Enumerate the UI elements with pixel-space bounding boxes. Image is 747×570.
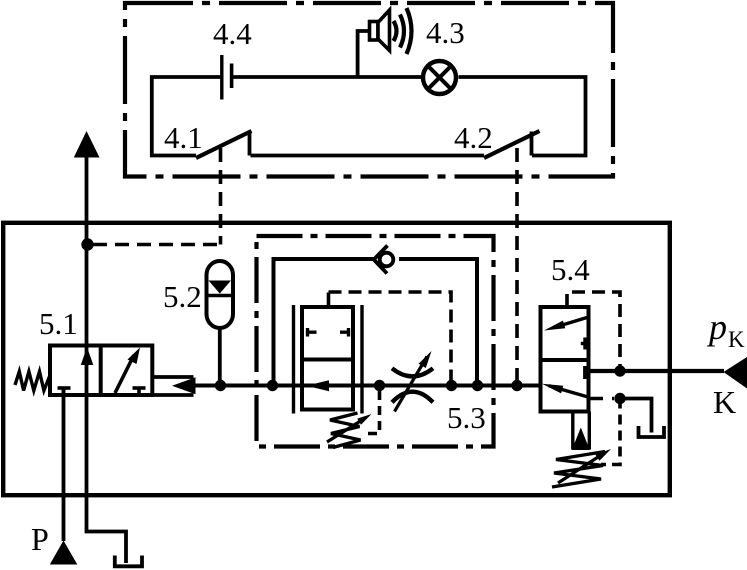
junction dot: main line / bypass left <box>267 380 278 391</box>
node A junction dot <box>81 238 93 250</box>
P supply line <box>62 389 66 542</box>
wire: exhaust branch of valve 5.4 <box>616 399 652 433</box>
reducing valve pilot connection (solid stub) <box>327 293 331 308</box>
throttle valve 5.3 adjust arrow head <box>419 351 432 368</box>
check valve ball <box>380 253 394 267</box>
output line: vertical line through valve 5.1 down to bottom exhaust <box>87 157 127 563</box>
K port arrow (filled, left) <box>724 357 747 389</box>
reducing valve adjust arrow <box>327 418 366 443</box>
svg-text:5.4: 5.4 <box>551 252 590 287</box>
pilot line (dashed) over reducing valve to downstream node <box>329 292 452 386</box>
switch 4.1 contact bar <box>248 132 252 156</box>
junction dot: main line / pilot downstream <box>446 380 457 391</box>
valve 5.1 right cell port T bar <box>133 386 146 390</box>
svg-text:4.4: 4.4 <box>213 16 252 51</box>
junction dot: K line / pilot <box>614 365 625 376</box>
valve 5.1 left cell up-arrow head <box>81 347 94 365</box>
wire: lamp to right side, down to switch 4.2 <box>459 77 586 156</box>
valve 5.1 return spring <box>15 372 50 391</box>
accumulator 5.2 check triangle <box>209 281 232 294</box>
svg-text:5.3: 5.3 <box>447 400 486 435</box>
valve 5.1 right cell port stem <box>137 388 141 395</box>
valve 5.4 pilot triangle (filled, up) <box>572 428 590 451</box>
output arrow (filled, up) <box>74 131 100 158</box>
buzzer 4.3 sound waves <box>394 8 412 54</box>
pilot line (dashed) from node A to switch 4.1 <box>219 148 223 245</box>
bypass line with check valve (inverted U) <box>274 259 478 386</box>
svg-text:5.2: 5.2 <box>163 279 202 314</box>
junction dot: main line / bypass right <box>472 380 483 391</box>
enclosure: electrical alarm circuit (dash-dot frame) <box>125 3 613 177</box>
reducing valve adjust arrow head <box>357 414 371 425</box>
battery 4.4 long plate <box>220 55 223 100</box>
valve 5.4 bottom cell arrow head <box>542 384 563 394</box>
valve 5.1 pilot arrow (filled, left) <box>172 377 196 394</box>
wire: K line <box>589 369 725 373</box>
throttle valve 5.3 adjust arrow <box>395 357 428 412</box>
P supply triangle <box>50 541 78 565</box>
junction dot: main line / drain <box>374 380 385 391</box>
reducing valve rails <box>294 305 363 414</box>
svg-text:K: K <box>713 384 736 420</box>
valve 5.1 left cell port T bar <box>58 386 71 390</box>
svg-text:4.1: 4.1 <box>164 120 203 155</box>
valve 5.4 divider <box>541 358 589 362</box>
enclosure: flow-control unit 5.3 (dash-dot frame) <box>257 236 494 447</box>
valve 5.1 pilot chamber (open box) <box>152 377 193 395</box>
valve 5.1 right cell diagonal arrow <box>115 355 134 393</box>
switch 4.1 blade <box>196 131 252 158</box>
reducing valve spring <box>330 413 361 448</box>
accumulator 5.2 divider line <box>207 294 233 297</box>
lamp 4.3 cross <box>428 66 451 89</box>
pilot line (dashed) valve 5.4 from K <box>567 292 620 371</box>
drain line (dashed) under reducing valve <box>362 391 380 434</box>
valve 5.4 spring <box>552 452 605 488</box>
valve 5.1 right cell arrow head <box>128 348 141 365</box>
valve 5.1 divider <box>99 346 103 396</box>
enclosure: pneumatic brake unit (solid frame) <box>3 223 670 495</box>
junction dot: exhaust branch / drain <box>614 393 625 404</box>
exhaust symbol bottom left <box>115 556 142 567</box>
wire: battery left lead and left drop to switch 4.1 <box>152 77 221 156</box>
svg-text:4.3: 4.3 <box>426 15 465 50</box>
valve 5.4 adjust arrow <box>558 453 605 484</box>
pilot line (dashed) node A to switch 4.1 riser <box>93 243 221 247</box>
svg-text:p: p <box>706 307 727 347</box>
svg-text:P: P <box>31 521 49 557</box>
reducing valve divider <box>302 358 353 362</box>
svg-text:5.1: 5.1 <box>39 306 78 341</box>
throttle valve 5.3 top arc <box>392 368 433 376</box>
accumulator 5.2 stem <box>218 328 222 386</box>
valve 5.4 bottom cell arrow line <box>549 386 588 397</box>
reducing valve flow arrow head (left) <box>307 380 330 391</box>
valve 5.1 body <box>50 346 152 396</box>
drain stub (dashed) valve 5.4 right port to exhaust node <box>590 397 614 401</box>
svg-text:K: K <box>728 327 745 352</box>
switch 4.2 blade <box>484 131 540 158</box>
drain line (dashed) valve 5.4 spring side <box>601 399 620 465</box>
throttle valve 5.3 bottom arc <box>392 392 433 403</box>
svg-text:4.2: 4.2 <box>454 120 493 155</box>
valve 5.4 top cell port T <box>581 338 585 350</box>
lamp 4.3 circle <box>423 61 456 94</box>
check valve seat <box>374 246 388 274</box>
buzzer 4.3 driver box <box>370 22 379 41</box>
wire: speaker drop wire <box>358 31 370 77</box>
valve 5.4 adjust arrow head <box>595 449 611 461</box>
pilot line (dashed) from main line to switch 4.2 <box>515 148 519 386</box>
exhaust symbol right <box>639 426 665 437</box>
buzzer 4.3 horn <box>378 10 390 51</box>
junction dot: main line / accumulator <box>215 380 226 391</box>
wire: between switch 4.1 and switch 4.2 <box>251 154 485 158</box>
wire: battery right lead to speaker junction and lamp <box>232 75 422 79</box>
reducing valve top cell right port <box>340 328 349 337</box>
valve 5.1 left cell port stem <box>62 388 66 395</box>
valve 5.4 top cell arrow line <box>556 318 587 327</box>
reducing valve body <box>302 307 353 410</box>
valve 5.4 bottom cell port T (to K) <box>585 366 592 379</box>
wire: main pressure line <box>194 384 541 388</box>
valve 5.4 top cell arrow head <box>544 321 565 331</box>
reducing valve top cell left port <box>308 328 317 337</box>
valve 5.4 spring seat stem <box>573 412 590 450</box>
valve 5.4 body <box>541 307 589 412</box>
battery 4.4 short plate <box>230 64 234 89</box>
junction dot: main line / pilot 4.2 <box>511 380 522 391</box>
accumulator 5.2 shell <box>207 261 234 328</box>
switch 4.2 contact bar <box>530 132 534 156</box>
